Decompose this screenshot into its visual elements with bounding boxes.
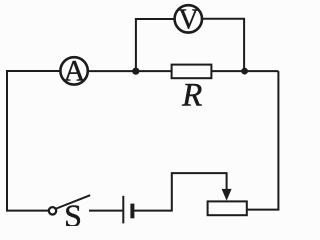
battery short thick plate (negative) [130,204,134,219]
wire ammeter to resistor (through node) [88,70,172,72]
wire battery to rheostat riser [134,173,227,211]
battery long plate (positive) [122,196,124,224]
switch S lever blade [56,195,90,208]
switch S pivot ring [49,207,56,214]
node junction right (dot) [241,68,248,75]
rheostat R2 body [208,201,247,215]
wire voltmeter right to down-corner [202,19,244,68]
svg-text:S: S [64,197,82,226]
resistor R1 body [172,65,212,79]
wire main top-left horizontal to ammeter [6,70,61,72]
svg-text:R: R [181,78,202,114]
svg-text:A: A [64,55,86,88]
wire resistor right to node [211,70,278,72]
rheostat slider arrowhead [222,189,232,201]
ammeter U: meter A [60,57,87,84]
wire left vertical and bottom-left run [7,70,49,210]
svg-text:V: V [178,4,198,35]
wire switch fixed contact to battery [89,210,122,212]
wire right vertical side [247,71,279,210]
wire voltmeter branch left riser [136,19,175,68]
voltmeter U: meter V [175,5,202,32]
node junction left (dot) [132,68,139,75]
